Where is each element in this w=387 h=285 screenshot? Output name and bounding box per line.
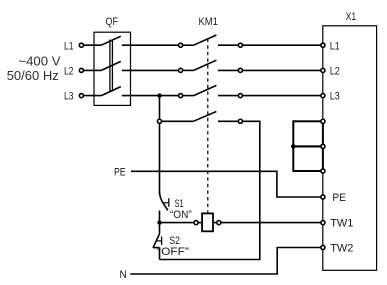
QF pole 1 [84, 36, 179, 45]
contactor coil KM1 [194, 213, 221, 231]
N wire [120, 248, 321, 282]
X1 jumper terminal top [321, 119, 325, 123]
X1 terminal TW2 [321, 243, 354, 255]
X1 terminal TW1 [321, 218, 354, 230]
wire aux contact to S1 (node A vertical) [159, 123, 161, 193]
svg-text:QF: QF [106, 16, 119, 28]
supply label ~400V 50/60 Hz [7, 54, 61, 84]
svg-text:L3: L3 [330, 91, 340, 103]
pushbutton S2 "OFF" [153, 223, 189, 260]
junction node on L3 row [157, 93, 161, 97]
svg-text:S1: S1 [175, 198, 184, 210]
svg-text:PE: PE [114, 166, 126, 178]
wire L3 tap down to aux contact [159, 96, 161, 120]
terminal block X1 box [323, 11, 377, 271]
svg-text:PE: PE [332, 192, 346, 204]
pushbutton S1 "ON" [160, 192, 193, 223]
source terminal L1 [64, 40, 83, 52]
KM1 aux contact [157, 112, 242, 124]
junction node coil row [157, 220, 161, 224]
X1 terminal L1 [321, 40, 340, 52]
svg-text:L1: L1 [330, 40, 340, 52]
circuit breaker QF box [94, 16, 131, 105]
KM1 main contact 3 [179, 85, 243, 97]
svg-text:L1: L1 [64, 40, 74, 52]
QF mechanical link [110, 40, 113, 92]
wire coil row junction to coil [160, 222, 195, 224]
source terminal L2 [64, 66, 83, 78]
svg-text:~400 V: ~400 V [18, 54, 60, 69]
junction node on jumper left middle [291, 144, 296, 149]
QF pole 2 [84, 61, 179, 70]
X1 terminal PE [321, 192, 346, 204]
X1 terminal L3 [321, 91, 340, 103]
QF pole 3 [84, 87, 179, 96]
KM1 mechanical link dashed line [207, 39, 209, 214]
PE wire [114, 166, 321, 197]
svg-text:N: N [120, 269, 127, 281]
KM1 main contact 2 [179, 60, 243, 72]
X1 jumper terminal middle [321, 144, 325, 148]
svg-text:L2: L2 [64, 66, 74, 78]
X1 terminal L2 [321, 66, 340, 78]
aux contact feedback wire to S2 bottom [160, 121, 260, 259]
wire KM1 to X1 L2 [243, 69, 321, 71]
source terminal L3 [64, 91, 83, 103]
X1 jumper terminal bottom [321, 169, 325, 173]
wire KM1 to X1 L3 [243, 95, 321, 97]
svg-text:L3: L3 [64, 91, 74, 103]
KM1 main contact 1 [179, 35, 243, 47]
svg-text:50/60 Hz: 50/60 Hz [7, 68, 59, 83]
svg-text:“OFF”: “OFF” [157, 246, 189, 258]
wire coil to TW1 [221, 222, 321, 224]
svg-text:TW2: TW2 [330, 243, 353, 255]
svg-text:X1: X1 [346, 11, 357, 23]
voltage link jumpers on X1 [293, 121, 323, 171]
svg-text:“ON”: “ON” [170, 209, 192, 221]
svg-text:TW1: TW1 [330, 218, 353, 230]
wire KM1 to X1 L1 [243, 44, 321, 46]
svg-text:L2: L2 [330, 66, 340, 78]
svg-text:KM1: KM1 [199, 16, 218, 28]
